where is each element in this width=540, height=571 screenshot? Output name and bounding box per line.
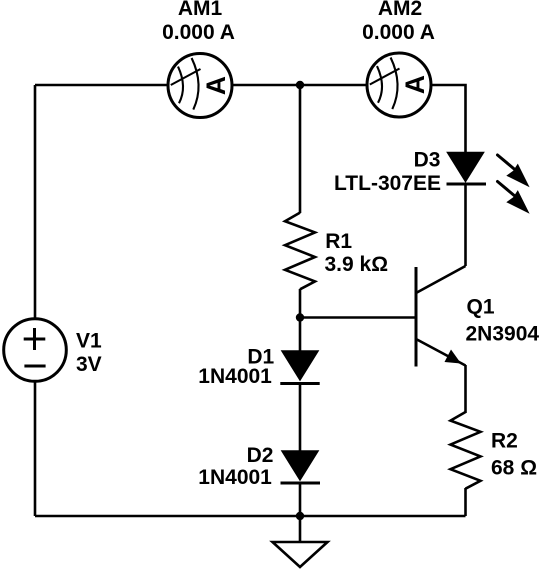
- resistor R1: [285, 213, 315, 290]
- svg-text:2N3904: 2N3904: [466, 323, 540, 346]
- wire AM1 to top node: [233, 84, 301, 87]
- transistor Q1: [416, 266, 466, 367]
- wire left vertical upper: [34, 85, 37, 319]
- svg-text:3V: 3V: [76, 353, 102, 376]
- ammeter AM2: [367, 53, 431, 117]
- wire D2 to bottom node: [299, 483, 302, 516]
- svg-text:1N4001: 1N4001: [198, 365, 272, 388]
- wire ground stub: [299, 516, 302, 542]
- svg-text:R1: R1: [325, 230, 352, 253]
- wire D3 cathode to Q1 collector: [464, 184, 467, 266]
- LED D3: [447, 153, 530, 214]
- svg-text:A: A: [400, 75, 430, 94]
- resistor R2: [451, 412, 481, 489]
- wire R2 to bottom-right corner: [464, 488, 467, 516]
- svg-text:0.000 A: 0.000 A: [362, 21, 435, 44]
- wire base node to Q1 base: [300, 316, 416, 319]
- diode D2: [281, 451, 321, 483]
- ammeter AM1: [168, 54, 232, 118]
- node C (ground junction): [296, 512, 304, 520]
- svg-text:D2: D2: [247, 444, 274, 467]
- svg-text:3.9 kΩ: 3.9 kΩ: [325, 253, 389, 276]
- wire left vertical lower: [34, 382, 37, 517]
- wire base node to D1: [299, 318, 302, 352]
- svg-text:Q1: Q1: [467, 296, 495, 319]
- wire bottom horizontal: [35, 515, 466, 518]
- node A (top junction): [296, 81, 304, 89]
- svg-text:R2: R2: [491, 430, 518, 453]
- svg-text:AM1: AM1: [178, 0, 223, 20]
- wire AM2 to top-right corner and down to D3: [432, 85, 466, 153]
- ground: [273, 542, 328, 567]
- svg-text:0.000 A: 0.000 A: [162, 21, 235, 44]
- diode D1: [280, 351, 319, 384]
- node B (base junction): [296, 313, 304, 321]
- svg-text:LTL-307EE: LTL-307EE: [334, 172, 441, 195]
- wire D1 to D2: [299, 384, 302, 452]
- svg-text:1N4001: 1N4001: [198, 466, 272, 489]
- wire Q1 emitter to R2: [464, 365, 467, 413]
- svg-text:D3: D3: [414, 149, 441, 172]
- wire top node to AM2: [300, 84, 367, 87]
- wire center vertical top node to R1: [299, 85, 302, 213]
- svg-text:V1: V1: [76, 330, 102, 353]
- wire R1 to base node: [299, 289, 302, 318]
- svg-text:68 Ω: 68 Ω: [491, 457, 537, 480]
- svg-text:AM2: AM2: [378, 0, 422, 20]
- voltage source V1: [4, 319, 67, 382]
- wire top-left horizontal: [35, 84, 168, 87]
- svg-text:A: A: [201, 76, 231, 95]
